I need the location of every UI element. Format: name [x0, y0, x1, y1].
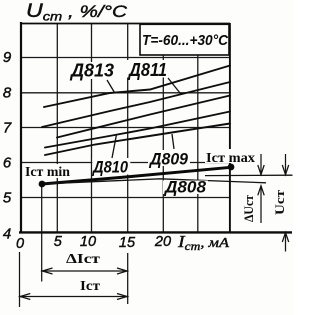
svg-text:Д813: Д813 [69, 61, 114, 81]
svg-text:9: 9 [3, 49, 12, 66]
svg-text:ΔUст: ΔUст [241, 194, 256, 222]
svg-text:Iст max: Iст max [206, 151, 255, 166]
svg-text:5: 5 [3, 190, 12, 207]
svg-text:Uст , %/°C: Uст , %/°C [26, 1, 128, 24]
svg-text:Iст: Iст [80, 279, 100, 294]
svg-text:20: 20 [154, 234, 171, 250]
svg-text:15: 15 [119, 235, 136, 251]
svg-text:10: 10 [80, 234, 96, 250]
svg-text:T=-60...+30°C: T=-60...+30°C [142, 32, 229, 49]
svg-text:Iст min: Iст min [25, 165, 70, 180]
svg-text:Uст: Uст [272, 189, 287, 215]
svg-text:Д811: Д811 [127, 60, 167, 80]
svg-text:5: 5 [54, 234, 63, 250]
svg-text:Д810: Д810 [91, 158, 128, 177]
svg-text:4: 4 [3, 226, 11, 243]
svg-text:6: 6 [3, 155, 12, 172]
svg-text:7: 7 [3, 120, 12, 137]
svg-text:ΔIст: ΔIст [66, 252, 100, 267]
svg-text:Д808: Д808 [163, 178, 207, 197]
svg-text:8: 8 [3, 85, 12, 102]
svg-text:Д809: Д809 [148, 150, 188, 169]
svg-text:0: 0 [16, 236, 24, 252]
